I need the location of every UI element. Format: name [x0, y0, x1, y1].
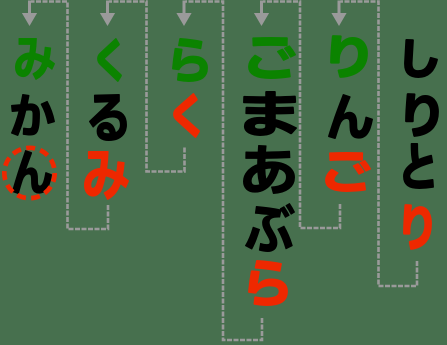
kana ri red last of shiritori	[404, 205, 431, 248]
kana a of gomaabura	[244, 146, 295, 194]
red dashed circle around final n (dead end)	[4, 148, 54, 198]
arrowhead into mikan mi	[22, 1, 37, 27]
arrowhead into ringo ri	[331, 1, 346, 27]
kana mi green first of mikan	[15, 39, 54, 80]
kana shi of shiritori	[405, 40, 437, 77]
arrowhead into raku ra	[176, 1, 191, 27]
kana ri green first of ringo	[331, 36, 366, 77]
kana go red last of ringo	[326, 153, 370, 191]
kana ra red last of gomaabura	[249, 261, 287, 305]
wire from shiritori ri to ringo	[341, 2, 418, 287]
wire from ringo go to gomaabura	[263, 2, 340, 229]
arrowhead into kurumi ku	[100, 1, 115, 27]
kana ra green first of raku	[173, 39, 207, 81]
kana n last of mikan	[13, 151, 52, 193]
wire from gomaabura ra to raku	[186, 2, 263, 341]
kana bu of gomaabura	[246, 204, 295, 252]
kana go green first of gomaabura	[249, 38, 295, 78]
wire from kurumi mi to mikan	[31, 2, 108, 230]
kana ri of shiritori	[406, 94, 438, 136]
kana n of ringo	[329, 95, 372, 138]
kana to of shiritori	[404, 144, 433, 188]
kana ma of gomaabura	[244, 92, 296, 135]
kana ku red last of raku	[174, 94, 199, 136]
kana mi red last of kurumi	[85, 152, 129, 200]
kana ku green first of kurumi	[98, 39, 121, 80]
kana ka of mikan	[12, 95, 54, 135]
kana ru of kurumi	[90, 95, 127, 140]
arrowhead into gomaabura go	[254, 1, 269, 27]
wire from raku ku to kurumi	[109, 2, 185, 172]
